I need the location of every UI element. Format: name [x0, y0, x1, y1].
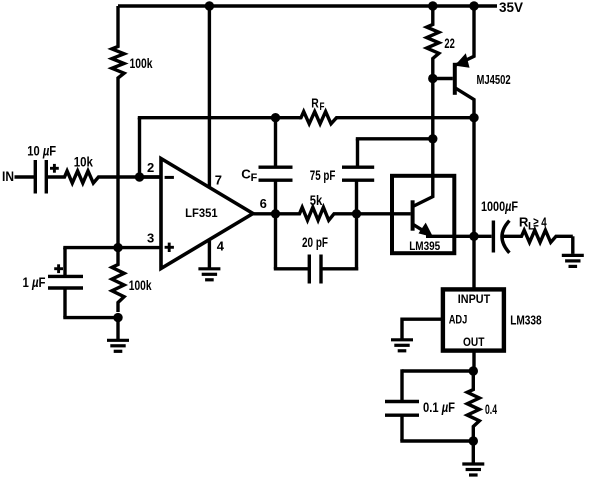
capacitor C5 1000uF (curved plate) [502, 221, 509, 253]
capacitor C2 1uF (top plate) [48, 275, 83, 278]
svg-text:F: F [251, 172, 258, 184]
transistor Q2 collector [414, 137, 433, 206]
svg-text:7: 7 [215, 172, 222, 187]
svg-text:R: R [311, 95, 319, 110]
wire Q2 emitter to output node [426, 235, 474, 238]
plus sign at non-inverting input [165, 246, 174, 249]
node CF top junction [271, 113, 280, 122]
wire 75pF bottom lead [355, 181, 358, 214]
wire Q2 base lead [357, 212, 411, 215]
ground (load) [571, 254, 574, 256]
capacitor C2 1uF (bottom plate) [48, 286, 83, 289]
wire 1uF bottom lead [63, 288, 66, 318]
wire pin3 node to 1uF cap [63, 248, 66, 250]
svg-text:10k: 10k [74, 154, 94, 169]
wire 0.1uF top lead [400, 369, 403, 401]
svg-text:100k: 100k [129, 278, 152, 293]
node Q1 base junction [428, 74, 437, 83]
svg-text:ADJ: ADJ [449, 313, 468, 327]
node 75pF line / collector column junction [428, 134, 437, 143]
svg-text:35V: 35V [499, 0, 524, 16]
wire CF bottom lead [274, 180, 277, 214]
box LM395 [392, 176, 454, 253]
node rail / Q1 emitter junction [469, 1, 478, 10]
wire CF top lead [274, 118, 277, 168]
wire 75pF top lead to collector column [356, 139, 359, 167]
wire 35V supply rail [118, 4, 497, 7]
wire 20pF left leg [274, 214, 277, 269]
resistor R5 22 ohm [427, 6, 439, 79]
svg-text:3: 3 [147, 230, 154, 245]
svg-text:6: 6 [260, 196, 267, 211]
capacitor C1 10uF input (left plate) [34, 160, 37, 194]
capacitor C5 1000uF (flat plate) [492, 221, 495, 253]
svg-text:LF351: LF351 [185, 206, 218, 220]
capacitor CF (top plate) [259, 165, 293, 168]
resistor R2 100k (non-inverting bias to ground) [112, 248, 124, 312]
wire left column down to pin3 node [116, 100, 119, 248]
wire feedback line right segment [337, 116, 475, 119]
svg-text:LM338: LM338 [510, 312, 542, 327]
wire Q1 base lead [433, 77, 453, 80]
svg-text:LM395: LM395 [409, 239, 440, 253]
transistor Q2 body bar [411, 200, 415, 230]
wire RL to ground [571, 236, 574, 254]
svg-text:1 µF: 1 µF [23, 275, 46, 290]
node RF right / Q1 collector junction [469, 113, 478, 122]
svg-text:MJ4502: MJ4502 [477, 72, 511, 87]
svg-text:OUT: OUT [463, 335, 485, 349]
box LM338 [443, 289, 504, 350]
wire pin7 to rail [208, 6, 211, 188]
wire pin4 stub [208, 241, 211, 269]
svg-text:5k: 5k [310, 193, 323, 208]
resistor RF feedback [299, 112, 338, 124]
svg-text:10 µF: 10 µF [27, 144, 56, 159]
capacitor C3 20pF (right plate) [319, 255, 322, 284]
transistor Q1 collector [456, 88, 474, 119]
transistor Q1 emitter [456, 6, 474, 65]
svg-text:100k: 100k [130, 56, 153, 71]
resistor R6 0.4 ohm [467, 371, 479, 441]
wire pin2 lead [138, 175, 161, 178]
resistor RL load [504, 230, 573, 242]
svg-text:INPUT: INPUT [458, 292, 491, 306]
node pin3 junction [113, 243, 122, 252]
node inverting input junction [135, 172, 144, 181]
wire pin3 lead [118, 246, 161, 249]
node 5k right junction [352, 209, 361, 218]
node R2 bottom / 1uF return junction [113, 313, 122, 322]
capacitor C1 10uF input (right plate) [45, 160, 48, 194]
wire inverting node up to feedback line [138, 118, 141, 177]
capacitor CF (bottom plate) [259, 178, 293, 181]
svg-text:22: 22 [444, 36, 454, 51]
svg-text:IN: IN [2, 169, 14, 184]
capacitor C4 75pF (bottom plate) [342, 178, 374, 181]
wire 20pF right leg [321, 267, 358, 270]
node OUT top junction [469, 366, 478, 375]
wire top of RC network [402, 369, 473, 372]
ground (output network) [472, 463, 475, 464]
ground (left column) [116, 338, 119, 340]
transistor Q1 MJ4502 body bar [453, 63, 457, 95]
polarity + of C1 [50, 167, 59, 170]
svg-text:4: 4 [217, 239, 225, 254]
wire Q1 collector column to output node [472, 116, 475, 236]
node output junction (emitter/1000uF/LM338 input) [469, 232, 478, 241]
svg-text:75 pF: 75 pF [310, 168, 336, 183]
capacitor C3 20pF (left plate) [308, 255, 311, 284]
polarity + of C2 [54, 267, 63, 270]
svg-text:0.1 µF: 0.1 µF [423, 400, 455, 415]
svg-text:0.4: 0.4 [485, 402, 497, 417]
node RC network bottom junction [469, 436, 478, 445]
transistor Q1 emitter arrowhead [457, 55, 469, 66]
transistor Q2 emitter [414, 225, 430, 235]
capacitor C6 0.1uF (top plate) [385, 400, 419, 403]
wire feedback line left segment [138, 118, 141, 120]
svg-text:≥ 4: ≥ 4 [533, 215, 547, 230]
node rail / 22-ohm junction [428, 1, 437, 10]
op-amp U1 LF351 triangle [161, 159, 253, 269]
wire 1uF top lead [63, 248, 66, 277]
wire LM338 OUT lead [472, 351, 475, 371]
node pin6 junction [271, 209, 280, 218]
wire output node to 1000uF [474, 235, 492, 238]
capacitor C6 0.1uF (bottom plate) [385, 414, 419, 417]
ground (ADJ) [400, 339, 403, 340]
svg-text:2: 2 [147, 160, 154, 175]
node rail / pin7 line junction [205, 1, 214, 10]
ground (pin 4) [208, 267, 211, 271]
resistor R1 100k (upper, from rail to inverting-side column) [112, 6, 124, 100]
wire IN lead [15, 175, 36, 178]
svg-text:20 pF: 20 pF [302, 235, 328, 250]
wire output node to LM338 INPUT [472, 236, 475, 289]
resistor R4 5k [251, 207, 358, 220]
wire 0.1uF bottom lead [400, 415, 403, 441]
svg-text:1000µF: 1000µF [481, 199, 518, 214]
wire collector column (LM395 collector to Q1 base) [431, 79, 434, 138]
wire ADJ to ground [402, 318, 443, 321]
capacitor C4 75pF (top plate) [342, 165, 374, 168]
minus sign at inverting input [165, 176, 174, 179]
resistor R3 10k input [46, 171, 162, 183]
wire stub to bottom ground [472, 441, 475, 463]
svg-text:F: F [320, 101, 325, 113]
wire stub to ground below R2 [116, 318, 119, 338]
transistor Q2 emitter arrowhead [420, 225, 431, 236]
